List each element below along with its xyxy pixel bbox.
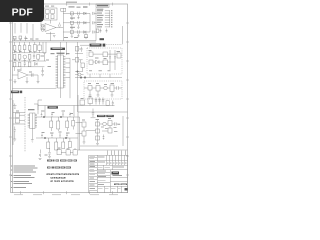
connector J1 title text [97, 5, 108, 7]
section boundary dashed [24, 97, 26, 152]
resistor R37 [50, 121, 53, 128]
resistor R6 [70, 12, 73, 15]
left stack rows [97, 170, 128, 186]
capacitor C1 [46, 15, 49, 19]
ground [37, 81, 40, 84]
diode D5 [35, 63, 38, 66]
IC U3 pins right [63, 57, 65, 87]
wire [59, 148, 75, 152]
wire [13, 113, 25, 125]
wire [90, 74, 110, 78]
capacitor C19 [102, 98, 104, 105]
junction node [44, 137, 46, 139]
resistor R16 [28, 55, 31, 60]
resistor R17 [37, 55, 40, 60]
ground [41, 75, 44, 77]
resistor R44 [68, 142, 71, 148]
wire [75, 49, 83, 54]
junction node [84, 77, 86, 79]
resistor R5 [61, 8, 66, 11]
resistor R25 [110, 85, 114, 92]
wire [80, 44, 89, 46]
wire [77, 15, 79, 36]
ground [53, 36, 56, 38]
resistor R9 [96, 29, 99, 32]
board 2 outline dashed [84, 81, 122, 99]
notes block 4 [11, 187, 12, 188]
transistor Q1 [41, 24, 44, 27]
board outline dashed [87, 48, 122, 74]
resistor R48 [13, 63, 16, 67]
wire [95, 8, 97, 41]
wire rail [89, 13, 91, 32]
wire [15, 59, 39, 61]
diode D1 [84, 12, 87, 15]
row divider [97, 165, 128, 170]
net label [100, 38, 105, 40]
capacitor C25 [51, 113, 53, 118]
resistor R13 [28, 46, 31, 51]
wire net feed [38, 105, 78, 107]
wire [12, 100, 14, 145]
wire bus B [12, 41, 96, 43]
note line add pn [47, 159, 77, 161]
IC U4 label [28, 109, 35, 110]
label ASSEMBLY 1 [11, 91, 22, 94]
title block outline [97, 155, 128, 193]
ground [77, 36, 79, 37]
wire [14, 134, 16, 139]
capacitor C3 [59, 23, 61, 28]
resistor R24 [96, 86, 100, 92]
resistor R21 [103, 60, 108, 65]
capacitor C10 [92, 31, 97, 34]
note line amp [50, 181, 73, 183]
junction node [60, 116, 62, 118]
capacitor C6 [78, 21, 80, 24]
capacitor C17 [95, 98, 97, 105]
ground [83, 142, 86, 144]
connector J1 subtitle [97, 9, 103, 10]
note line check [47, 173, 79, 175]
wire [104, 43, 122, 45]
resistor R11 [18, 46, 21, 51]
wire net [75, 77, 122, 79]
ground [97, 95, 100, 97]
wire [48, 117, 79, 150]
diode D3 [84, 31, 87, 34]
capacitor C37 [81, 47, 83, 52]
IC U3 pins left [56, 57, 58, 87]
wire [84, 87, 122, 89]
resistor R3 [13, 36, 16, 39]
wire [50, 20, 52, 24]
wire [72, 60, 83, 72]
resistor R55 [106, 101, 109, 105]
capacitor C26 [62, 112, 64, 117]
ground [14, 79, 17, 84]
wire [75, 74, 84, 76]
wire [86, 124, 120, 131]
capacitor C12 [33, 54, 35, 60]
resistor R34 [108, 128, 112, 133]
capacitor C39 [112, 101, 114, 106]
capacitor C5 [78, 12, 80, 15]
capacitor C9 [92, 21, 97, 24]
resistor R35 [15, 113, 19, 118]
capacitor C30 [66, 134, 68, 139]
wire [12, 42, 46, 67]
IC U4 center line [31, 113, 33, 129]
resistor R26 [80, 100, 85, 105]
capacitor C4 [25, 36, 27, 41]
transistor Q2 [41, 28, 44, 31]
preamp board outline [78, 112, 128, 150]
capacitor C31 [48, 148, 50, 156]
title cell texts [107, 163, 108, 164]
wire [90, 90, 112, 95]
diode D4 [96, 60, 100, 64]
capacitor C11 [99, 29, 101, 33]
revision history column [89, 155, 97, 193]
connector J1 title box [96, 4, 109, 7]
wire [93, 54, 103, 62]
resistor R39 [66, 121, 69, 128]
note line terminal [50, 177, 65, 179]
value label [101, 124, 120, 132]
capacitor C33 [24, 61, 26, 67]
junction node [80, 77, 82, 79]
resistor R47 [73, 150, 77, 155]
wire net [12, 60, 46, 62]
potentiometer chain [97, 120, 99, 143]
wire [71, 15, 73, 36]
resistor R18 [89, 52, 93, 56]
wire [108, 50, 118, 70]
capacitor C22 [14, 127, 16, 135]
op-amp U1 [45, 24, 56, 32]
connector J1 pin labels [97, 10, 112, 27]
junction node [43, 116, 45, 118]
wire [65, 58, 70, 98]
wire [85, 33, 87, 39]
wire [15, 23, 27, 34]
resistor R15 [18, 55, 21, 60]
capacitor C21 [13, 104, 17, 109]
resistor R42 [55, 142, 58, 150]
resistor R32 [96, 136, 100, 140]
section divider [12, 87, 56, 89]
resistor R40 [72, 121, 75, 127]
ground [89, 95, 92, 97]
capacitor C35 [69, 113, 71, 118]
wire [104, 105, 115, 107]
capacitor C15 [114, 57, 116, 59]
wire [78, 95, 104, 112]
revision table [97, 155, 128, 165]
capacitor C32 [39, 150, 41, 158]
title logo text [112, 171, 122, 176]
title sheet number [124, 188, 127, 190]
resistor R49 [18, 63, 21, 67]
resistor R30 [96, 122, 100, 126]
resistor R36 [15, 119, 19, 124]
wire net row2 [36, 137, 78, 139]
resistor R29 [82, 131, 86, 136]
resistor R45 [57, 150, 61, 155]
value label [89, 69, 111, 72]
resistor R2 [51, 10, 55, 14]
wire [122, 26, 124, 44]
resistor R22 [117, 53, 121, 58]
resistor R7 [70, 21, 73, 24]
PDF badge [0, 0, 44, 22]
ground [48, 157, 51, 159]
sheet border frame [11, 4, 128, 193]
resistor R28 [82, 122, 86, 127]
bottom row dividers [104, 186, 122, 192]
ground [26, 77, 29, 84]
resistor R12 [23, 45, 26, 50]
notes block 1 [11, 166, 12, 167]
ground [39, 158, 42, 160]
resistor R46 [66, 150, 70, 155]
IC U4 pins right [35, 114, 37, 127]
wire rail left [77, 42, 79, 112]
wire net [12, 52, 46, 54]
wire [61, 42, 67, 55]
junction node [77, 71, 79, 73]
capacitor C34 [42, 68, 44, 74]
capacitor C13 [32, 73, 34, 77]
IC U3 body [58, 55, 64, 88]
resistor R1 [46, 10, 50, 14]
note line test [47, 166, 71, 168]
ground [77, 18, 79, 19]
svg-text:PDF: PDF [12, 7, 34, 19]
diode D2 [84, 22, 87, 25]
wire bus A [12, 40, 96, 42]
IC U4 pins left [28, 114, 30, 127]
resistor R4 [19, 36, 22, 39]
resistor R50 [28, 62, 31, 67]
IC U4 body [30, 113, 35, 129]
wire [15, 42, 40, 53]
IC U3 center line [60, 55, 62, 88]
wire net row3 [63, 31, 90, 33]
junction node [65, 137, 67, 139]
ground [105, 29, 107, 33]
ground [71, 36, 73, 37]
capacitor C27 [41, 134, 43, 139]
resistor R10 [13, 46, 16, 51]
transistor Q4 [104, 86, 108, 90]
connector J1 pins [105, 11, 110, 27]
capacitor C28 [51, 134, 53, 139]
component reference labels texture [14, 37, 120, 155]
connector J1 body [109, 10, 111, 27]
resistor R53 [81, 63, 84, 68]
title drawing name [114, 183, 127, 185]
transistor Q6 [78, 73, 81, 76]
resistor R51 [85, 35, 88, 38]
wire [15, 24, 33, 41]
zone tick marks [9, 3, 129, 195]
ground [111, 95, 114, 97]
wire net row2 [63, 22, 90, 24]
wire [76, 116, 124, 146]
label PREAMP BOARD [97, 115, 114, 117]
wire stubs into revision table [108, 151, 126, 156]
wire [46, 32, 55, 41]
label JOUDY 2 [90, 44, 106, 47]
capacitor C2 [51, 15, 54, 19]
IC U3 header label [51, 48, 66, 50]
resistor R31 [96, 129, 100, 133]
resistor R23 [88, 86, 92, 91]
capacitor C38 [91, 109, 96, 118]
ground [96, 144, 99, 146]
ground [77, 27, 79, 28]
wire [41, 23, 45, 30]
transistor Q3 [23, 55, 27, 59]
ground [71, 28, 73, 29]
wire [80, 145, 118, 147]
node labels row [69, 6, 88, 28]
resistor R19 [89, 60, 93, 64]
capacitor C24 [41, 113, 43, 118]
capacitor C23 [31, 140, 34, 143]
notes block 3 [11, 181, 12, 182]
capacitor C36 [103, 135, 105, 140]
label MIXER [48, 106, 59, 108]
resistor R33 [108, 121, 112, 126]
sheet header text [66, 2, 77, 3]
capacitor C20 [115, 122, 117, 125]
wire [12, 67, 38, 81]
relay K1 [38, 45, 42, 50]
trimmer VR1 [33, 45, 36, 52]
resistor R27 [88, 98, 93, 104]
transistor Q5 [103, 122, 107, 126]
wire [56, 27, 63, 29]
wire [51, 117, 73, 131]
resistor R54 [75, 47, 78, 52]
wire [83, 127, 85, 142]
wire bus vertical [62, 8, 64, 41]
resistor R38 [57, 121, 60, 129]
ground [71, 19, 73, 20]
input module box [44, 8, 57, 20]
wire net row1 [36, 116, 80, 118]
wire net row1 [63, 12, 90, 14]
wire [60, 88, 62, 98]
capacitor C29 [59, 133, 61, 138]
capacitor C16 [117, 86, 119, 90]
value label [45, 6, 54, 7]
wire [32, 100, 42, 140]
resistor R8 [70, 31, 73, 34]
capacitor C18 [98, 98, 100, 105]
capacitor C14 [109, 57, 111, 59]
resistor R41 [47, 142, 50, 149]
op-amp U2 [18, 71, 28, 79]
resistor R14 [13, 55, 16, 60]
IC U3 label [57, 53, 65, 54]
resistor R52 [75, 58, 78, 63]
capacitor C8 [92, 12, 97, 15]
capacitor C7 [78, 30, 80, 33]
resistor R43 [62, 142, 65, 149]
wire [45, 106, 74, 118]
ground [13, 139, 16, 141]
resistor R20 [103, 52, 108, 57]
notes block 2 [11, 175, 12, 176]
